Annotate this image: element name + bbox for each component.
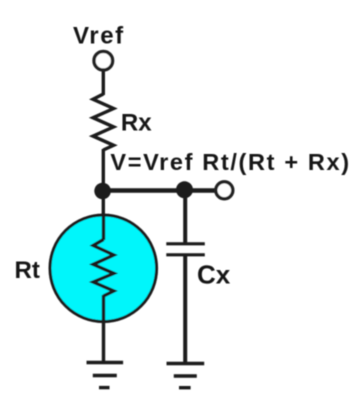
svg-text:Cx: Cx	[197, 260, 231, 290]
svg-text:V=Vref Rt/(Rt + Rx): V=Vref Rt/(Rt + Rx)	[110, 149, 350, 175]
svg-text:Vref: Vref	[73, 23, 125, 50]
svg-text:Rx: Rx	[121, 109, 152, 136]
svg-text:Rt: Rt	[15, 257, 40, 284]
